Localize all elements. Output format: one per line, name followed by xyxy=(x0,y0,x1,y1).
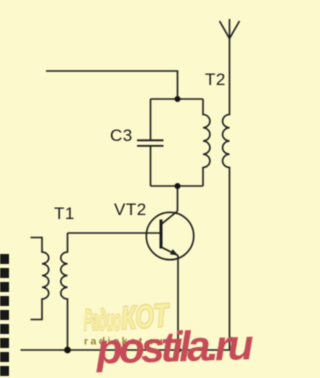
svg-text:T2: T2 xyxy=(205,70,226,89)
svg-text:VT2: VT2 xyxy=(114,200,147,219)
svg-text:C3: C3 xyxy=(110,126,133,145)
svg-text:T1: T1 xyxy=(54,204,75,223)
svg-text:postila.ru: postila.ru xyxy=(95,322,254,373)
